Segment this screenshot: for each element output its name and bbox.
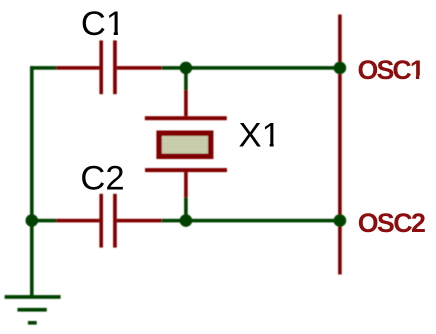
capacitor C1 right pin (red) <box>117 66 162 70</box>
crystal X1 top pin (red) <box>184 90 188 116</box>
wire: bottom horizontal green segment from C2 to OSC2 pin <box>162 219 340 223</box>
capacitor C2 right pin (red) <box>117 219 162 223</box>
capacitor C2 right plate <box>113 194 117 248</box>
svg-text:C1: C1 <box>81 5 125 43</box>
glyph tweak: trim foot of "1" in C1 <box>108 31 114 35</box>
svg-text:C2: C2 <box>80 160 124 198</box>
node junction dot: OSC1 <box>334 62 347 75</box>
capacitor C2 left pin (red) <box>56 219 99 223</box>
svg-text:X1: X1 <box>239 117 281 155</box>
wire: top horizontal green segment from C1 to OSC1 pin <box>162 66 340 70</box>
node junction dot: C1 / crystal top <box>180 62 193 75</box>
wire: top horizontal green segment from left corner to C1 left pin <box>30 66 56 70</box>
wire: bottom horizontal green segment from left node to C2 left pin <box>30 219 56 223</box>
glyph tweak: trim foot of "1" in OSC1 <box>411 75 416 80</box>
capacitor C1 left pin (red) <box>56 66 99 70</box>
glyph tweak: trim foot of "1" in X1 <box>263 143 269 147</box>
wire: green stub from top node down to crystal top pin <box>184 68 188 90</box>
svg-text:OSC2: OSC2 <box>358 208 425 238</box>
crystal X1 body <box>159 133 211 156</box>
wire: green stub from crystal bottom pin down to bottom node <box>184 197 188 220</box>
wire: left vertical net from top-left corner down to ground <box>30 66 34 297</box>
node junction dot: left / C2 <box>26 214 39 227</box>
ground symbol <box>5 295 61 299</box>
crystal X1 bottom pin (red) <box>184 172 188 197</box>
svg-text:OSC1: OSC1 <box>358 55 425 85</box>
node junction dot: OSC2 <box>334 214 347 227</box>
crystal X1 bottom electrode bar <box>145 168 227 172</box>
pin: right vertical red line (OSC pins rail) <box>338 15 342 275</box>
capacitor C2 left plate <box>99 194 103 248</box>
crystal X1 top electrode bar <box>145 116 227 120</box>
capacitor C1 left plate <box>99 40 103 94</box>
capacitor C1 right plate <box>113 40 117 94</box>
node junction dot: crystal bottom / C2 <box>180 214 193 227</box>
